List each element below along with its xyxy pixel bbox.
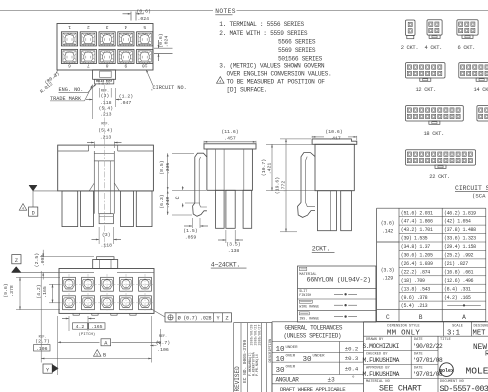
svg-text:REF.: REF. xyxy=(159,335,167,339)
svg-text:CIRCUIT S: CIRCUIT S xyxy=(455,185,488,192)
svg-text:2: 2 xyxy=(87,24,90,30)
svg-text:.106: .106 xyxy=(36,346,48,352)
top view: connector body outline xyxy=(57,24,153,71)
svg-text:4 CKT.: 4 CKT. xyxy=(425,45,443,51)
svg-text:(3.6): (3.6) xyxy=(381,221,395,227)
svg-text:P.PR-NUK(16: P.PR-NUK(16 xyxy=(255,354,259,376)
svg-text:(5.4): (5.4) xyxy=(98,128,113,134)
svg-text:(3): (3) xyxy=(101,93,110,99)
circuit size figure 2 CKT xyxy=(406,20,416,35)
svg-text:(0.6): (0.6) xyxy=(158,33,164,48)
circuit size dimension table frame xyxy=(377,207,486,209)
svg-text:(29.4) 1.158: (29.4) 1.158 xyxy=(444,244,476,250)
svg-text:3: 3 xyxy=(105,24,108,30)
svg-text:9: 9 xyxy=(124,63,127,69)
svg-text:REF.: REF. xyxy=(39,334,47,338)
svg-text:DESCRIPTION: DESCRIPTION xyxy=(269,339,273,363)
svg-text:2CKT.: 2CKT. xyxy=(312,246,330,253)
svg-text:OVER: OVER xyxy=(286,354,296,358)
svg-text:MET: MET xyxy=(473,329,487,337)
svg-text:°: ° xyxy=(352,375,356,382)
svg-text:TITLE: TITLE xyxy=(440,338,451,342)
svg-text:Z: Z xyxy=(15,258,18,264)
svg-text:(5.4) .213: (5.4) .213 xyxy=(401,303,428,309)
svg-text:±0.2: ±0.2 xyxy=(345,345,358,352)
svg-text:14 CKT: 14 CKT xyxy=(474,87,488,93)
material table frame xyxy=(298,266,376,322)
marking box (trade mark / eng. no.) xyxy=(95,79,114,84)
rotated dims (10.7)/.421 and (19.6)/.772 xyxy=(271,144,273,190)
svg-text:(30.6) 1.205: (30.6) 1.205 xyxy=(401,253,433,259)
bottom dim boxes [4.2][.165] (PITCH) xyxy=(73,323,88,329)
svg-text:5566 SERIES: 5566 SERIES xyxy=(278,38,316,45)
svg-text:EC NO. 0005-3799: EC NO. 0005-3799 xyxy=(242,339,248,383)
svg-text:DESIGNED: DESIGNED xyxy=(474,324,488,328)
svg-text:(46.2) 1.819: (46.2) 1.819 xyxy=(444,210,476,216)
front view body xyxy=(59,269,154,314)
bottom bumps xyxy=(73,313,79,315)
svg-text:CHECKED BY: CHECKED BY xyxy=(366,352,388,356)
4~24ckt side view flange xyxy=(204,144,256,149)
svg-text:.106: .106 xyxy=(157,347,169,353)
svg-text:3:1: 3:1 xyxy=(447,329,460,337)
svg-text:4: 4 xyxy=(22,206,24,210)
svg-text:(25.2) .992: (25.2) .992 xyxy=(444,253,474,259)
svg-text:DRAFT WHERE APPLICABLE: DRAFT WHERE APPLICABLE xyxy=(280,386,346,392)
svg-text:.213: .213 xyxy=(100,134,112,140)
4~24ckt latch arm xyxy=(193,153,207,216)
svg-text:.772: .772 xyxy=(280,181,286,193)
svg-text:APPROVED BY: APPROVED BY xyxy=(366,366,391,370)
svg-text:.059: .059 xyxy=(185,234,197,240)
svg-text:(19.6): (19.6) xyxy=(275,177,281,194)
svg-text:OVER ENGLISH CONVERSION VALUES: OVER ENGLISH CONVERSION VALUES. xyxy=(227,70,332,77)
svg-text:INS. RANGE: INS. RANGE xyxy=(299,316,319,320)
svg-text:5: 5 xyxy=(143,24,146,30)
svg-text:.047: .047 xyxy=(120,100,132,106)
svg-text:DIMENSION STYLE: DIMENSION STYLE xyxy=(387,324,419,328)
svg-text:MM ONLY: MM ONLY xyxy=(387,329,420,337)
svg-text:(0.6): (0.6) xyxy=(137,9,152,15)
2ckt side view body xyxy=(315,144,354,190)
4~24ckt side view body xyxy=(207,149,253,190)
svg-text:'90/02/22: '90/02/22 xyxy=(413,343,444,350)
front view cavities xyxy=(63,277,76,291)
svg-text:4~24CKT.: 4~24CKT. xyxy=(211,261,240,268)
svg-text:GENERAL TOLERANCES: GENERAL TOLERANCES xyxy=(285,325,343,332)
dim (3)/.118 below legs xyxy=(98,227,100,244)
svg-text:(42) 1.654: (42) 1.654 xyxy=(444,219,471,225)
svg-text:(9.6): (9.6) xyxy=(3,283,9,298)
svg-text:(10.6): (10.6) xyxy=(325,129,342,135)
svg-text:DATE: DATE xyxy=(414,366,423,370)
svg-text:8: 8 xyxy=(105,63,108,69)
svg-text:(UNLESS SPECIFIED): (UNLESS SPECIFIED) xyxy=(284,333,342,340)
svg-text:(8.5): (8.5) xyxy=(159,160,165,175)
svg-text:18 CKT.: 18 CKT. xyxy=(424,131,445,137)
svg-text:.335: .335 xyxy=(165,163,171,175)
svg-text:.378: .378 xyxy=(9,285,15,297)
svg-text:(4.2) .165: (4.2) .165 xyxy=(444,295,471,301)
svg-text:UNDER: UNDER xyxy=(286,346,299,350)
svg-text:.024: .024 xyxy=(164,36,170,48)
svg-text:FINISH: FINISH xyxy=(299,293,311,297)
circuit size figure 12 CKT xyxy=(406,63,446,78)
svg-text:3. (METRIC) VALUES SHOWN GOVER: 3. (METRIC) VALUES SHOWN GOVERN xyxy=(219,62,325,69)
svg-text:6 CKT.: 6 CKT. xyxy=(458,45,476,51)
svg-text:M.FUKUSHIMA: M.FUKUSHIMA xyxy=(363,357,400,364)
dim (10.6)/.417 above xyxy=(311,136,313,138)
svg-text:.118: .118 xyxy=(100,243,112,249)
svg-text:(51.6) 2.031: (51.6) 2.031 xyxy=(401,210,433,216)
svg-text:4.2: 4.2 xyxy=(76,324,85,330)
svg-text:30: 30 xyxy=(303,356,313,364)
svg-text:.417: .417 xyxy=(329,135,341,141)
svg-text:[D] SURFACE.: [D] SURFACE. xyxy=(227,86,268,93)
ins range row xyxy=(299,312,309,315)
svg-text:(43.2) 1.701: (43.2) 1.701 xyxy=(401,227,433,233)
svg-text:UNDER: UNDER xyxy=(313,354,326,358)
top view cavities 1-10 xyxy=(61,32,77,46)
molex logo xyxy=(440,363,454,377)
svg-text:.165: .165 xyxy=(91,324,103,330)
svg-text:(3): (3) xyxy=(102,232,111,238)
svg-text:.248: .248 xyxy=(165,197,171,209)
dim (11.6)/.457 above xyxy=(203,141,205,148)
svg-text:1. TERMINAL : 5556 SERIES: 1. TERMINAL : 5556 SERIES xyxy=(219,21,304,28)
svg-text:±0.3: ±0.3 xyxy=(345,355,358,362)
svg-text:CIRCUIT NO.: CIRCUIT NO. xyxy=(153,85,187,91)
svg-text:MOLEX: MOLEX xyxy=(466,366,488,377)
svg-text:TO BE MEASURED AT POSITION OF: TO BE MEASURED AT POSITION OF xyxy=(227,78,326,85)
svg-text:(39) 1.535: (39) 1.535 xyxy=(401,236,428,242)
channel flares xyxy=(89,183,94,191)
title block frame xyxy=(364,321,488,323)
svg-text:4: 4 xyxy=(124,24,127,30)
svg-text:DATE: DATE xyxy=(414,352,423,356)
material row xyxy=(299,267,307,270)
vertical dims (8.5)/.335 and (6.3)/.248 xyxy=(167,153,169,215)
svg-text:(26.4) 1.039: (26.4) 1.039 xyxy=(401,261,433,267)
svg-text:(22.2) .874: (22.2) .874 xyxy=(401,269,431,275)
svg-text:DATE: DATE xyxy=(414,338,423,342)
svg-text:ANGULAR: ANGULAR xyxy=(276,377,300,384)
table row lines xyxy=(399,216,486,218)
polarizing tab under top view xyxy=(93,70,116,80)
svg-text:C: C xyxy=(386,314,390,321)
svg-text:.138: .138 xyxy=(228,248,240,254)
circuit size figure 14 CKT (clipped) xyxy=(459,63,488,78)
svg-text:10: 10 xyxy=(276,356,286,364)
svg-text:(34.8) 1.37: (34.8) 1.37 xyxy=(401,244,431,250)
svg-text:12 CKT.: 12 CKT. xyxy=(416,87,437,93)
svg-text:4: 4 xyxy=(219,80,221,84)
circuit size figure 20 CKT (clipped) xyxy=(477,106,488,121)
2ckt latch arm xyxy=(298,153,315,218)
svg-text:(18) .709: (18) .709 xyxy=(401,278,425,284)
svg-text:SEE CHART: SEE CHART xyxy=(379,384,422,392)
dimension (0.6)/.024 top xyxy=(130,12,132,21)
dim line A xyxy=(57,316,59,347)
center dashed line xyxy=(103,85,105,248)
svg-text:WIRE RANGE: WIRE RANGE xyxy=(299,305,319,309)
2ckt side view flange xyxy=(312,139,357,144)
svg-text:.165: .165 xyxy=(42,286,48,298)
svg-text:66NYLON (UL94V-2): 66NYLON (UL94V-2) xyxy=(307,277,371,285)
datum Y flag xyxy=(43,364,52,373)
datum D flag xyxy=(33,190,58,192)
circuit size figure 18 CKT xyxy=(406,106,464,121)
svg-text:A: A xyxy=(462,314,466,321)
channel bottom tip xyxy=(99,214,113,224)
svg-text:.129: .129 xyxy=(382,276,393,282)
svg-text:Z: Z xyxy=(225,316,228,322)
svg-text:(37.8) 1.488: (37.8) 1.488 xyxy=(444,227,476,233)
svg-text:.118: .118 xyxy=(100,100,112,106)
centerlines dashed xyxy=(60,283,153,285)
svg-text:(33.6) 1.323: (33.6) 1.323 xyxy=(444,236,476,242)
svg-text:(PITCH): (PITCH) xyxy=(79,332,96,337)
svg-text:NOTES: NOTES xyxy=(215,8,236,15)
svg-text:(9.6) .378: (9.6) .378 xyxy=(401,295,428,301)
svg-text:5: 5 xyxy=(96,352,98,356)
svg-text:(47.4) 1.866: (47.4) 1.866 xyxy=(401,219,433,225)
circuit size figure 22 CKT xyxy=(406,150,476,165)
svg-text:Ø (0.7) .028: Ø (0.7) .028 xyxy=(178,315,212,322)
4~24ckt legs xyxy=(216,190,225,228)
svg-text:M.FUKUSHIMA: M.FUKUSHIMA xyxy=(363,371,400,378)
svg-text:(8.4) .331: (8.4) .331 xyxy=(444,286,471,292)
general tolerances table frame xyxy=(272,321,364,323)
svg-text:B: B xyxy=(103,352,106,358)
svg-text:(6.3): (6.3) xyxy=(159,194,165,209)
svg-text:±0.4: ±0.4 xyxy=(345,365,359,372)
svg-text:OVER: OVER xyxy=(286,365,296,369)
svg-text:7: 7 xyxy=(87,63,90,69)
dim line B with note triangle 5 xyxy=(40,271,42,363)
svg-text:(3.5): (3.5) xyxy=(226,242,241,248)
svg-text:.142: .142 xyxy=(382,229,393,235)
wire range row xyxy=(299,300,312,303)
svg-text:(2.5): (2.5) xyxy=(34,253,40,268)
svg-text:22 CKT.: 22 CKT. xyxy=(429,174,450,180)
2ckt legs xyxy=(318,191,337,231)
svg-text:(3.3): (3.3) xyxy=(381,268,395,274)
svg-text:(1.5): (1.5) xyxy=(183,228,198,234)
svg-text:D: D xyxy=(32,210,35,216)
svg-text:1: 1 xyxy=(68,24,71,30)
svg-text:2 CKT.: 2 CKT. xyxy=(401,45,419,51)
svg-text:REF.: REF. xyxy=(101,123,109,127)
sheet top border line xyxy=(0,10,213,12)
svg-text:(5.4): (5.4) xyxy=(99,105,114,111)
svg-text:.024: .024 xyxy=(138,16,150,22)
feature control frame xyxy=(151,309,166,318)
svg-text:(12.6) .496: (12.6) .496 xyxy=(444,278,474,284)
legs xyxy=(62,191,78,227)
svg-text:(21) .827: (21) .827 xyxy=(444,261,468,267)
svg-text:5569 SERIES: 5569 SERIES xyxy=(278,47,316,54)
svg-text:molex: molex xyxy=(439,368,454,374)
svg-text:10: 10 xyxy=(142,63,148,69)
svg-text:(SCA: (SCA xyxy=(472,193,486,200)
svg-text:(10.7): (10.7) xyxy=(261,159,267,176)
svg-text:(16.8) .661: (16.8) .661 xyxy=(444,269,474,275)
svg-text:S.MOCHIZUKI: S.MOCHIZUKI xyxy=(363,343,400,350)
svg-text:SD-5557-003: SD-5557-003 xyxy=(440,384,488,392)
svg-text:.421: .421 xyxy=(267,163,273,175)
svg-text:6: 6 xyxy=(68,63,71,69)
svg-text:(2.7): (2.7) xyxy=(35,338,50,344)
svg-text:.213: .213 xyxy=(100,111,112,117)
svg-text:B: B xyxy=(419,314,423,321)
circuit size figure 4 CKT xyxy=(427,20,442,35)
svg-text:2005/06/27: 2005/06/27 xyxy=(258,324,263,345)
svg-text:C: C xyxy=(175,196,181,199)
svg-text:(11.6): (11.6) xyxy=(221,129,238,135)
circuit size figure 6 CKT xyxy=(457,20,478,35)
revision strip frame xyxy=(234,322,273,324)
side view top step lines xyxy=(58,150,89,152)
svg-text:REVISED: REVISED xyxy=(234,366,241,392)
datum Z flag top-left xyxy=(12,271,59,273)
svg-text:'97/01/08: '97/01/08 xyxy=(413,357,444,364)
svg-text:(13.8) .543: (13.8) .543 xyxy=(401,286,431,292)
note 4 warning triangle xyxy=(217,77,225,84)
center channel xyxy=(93,151,95,214)
svg-text:2. MATE WITH : 5559 SERIES: 2. MATE WITH : 5559 SERIES xyxy=(219,30,308,37)
left side view body xyxy=(58,145,154,191)
dimension (0.6)/.024 right rotated xyxy=(154,47,173,49)
svg-text:SCALE: SCALE xyxy=(452,324,463,328)
svg-text:30: 30 xyxy=(276,367,286,375)
svg-text:10: 10 xyxy=(276,346,286,354)
svg-text:DRAWN BY: DRAWN BY xyxy=(366,338,384,342)
svg-text:.457: .457 xyxy=(224,136,236,142)
svg-text:(1.2): (1.2) xyxy=(119,93,134,99)
front view top tab xyxy=(93,260,118,269)
svg-text:±3: ±3 xyxy=(328,377,336,384)
